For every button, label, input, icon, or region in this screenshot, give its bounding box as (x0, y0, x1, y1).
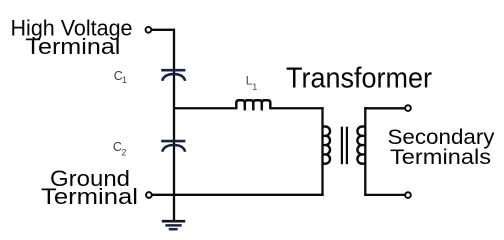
svg-text:Terminal: Terminal (25, 34, 120, 59)
terminal secondary bottom (405, 192, 411, 198)
wire top-left stub (152, 29, 176, 31)
label L1 (246, 73, 258, 91)
wire secondary top (364, 107, 405, 109)
wire primary top (junction to inductor) (174, 107, 237, 109)
svg-text:1: 1 (252, 82, 257, 92)
wire secondary bottom (364, 194, 405, 196)
svg-text:2: 2 (121, 148, 126, 158)
label Ground Terminal (41, 166, 138, 209)
svg-text:Transformer: Transformer (286, 62, 432, 94)
ground symbol (162, 221, 185, 229)
label C1 (114, 69, 127, 85)
svg-text:1: 1 (122, 75, 127, 85)
wire secondary vertical (364, 107, 366, 196)
inductor L1 (236, 100, 270, 109)
wire main vertical (173, 29, 175, 221)
transformer core (342, 127, 347, 165)
terminal high-voltage (top-left circle) (146, 27, 152, 33)
wire primary right vertical (321, 107, 323, 196)
terminal ground (bottom-left circle) (146, 192, 152, 198)
capacitor C1 (161, 70, 185, 81)
label C2 (113, 140, 127, 158)
wire inductor to transformer (270, 107, 324, 109)
transformer primary coil (323, 127, 331, 164)
terminal secondary top (405, 105, 411, 111)
label High Voltage Terminal (11, 15, 133, 58)
capacitor C2 (161, 141, 185, 152)
label Secondary Terminals (388, 126, 496, 169)
svg-text:Terminals: Terminals (390, 146, 491, 169)
wire primary bottom (152, 194, 324, 196)
svg-text:Terminal: Terminal (41, 184, 138, 209)
transformer secondary coil (357, 127, 365, 164)
